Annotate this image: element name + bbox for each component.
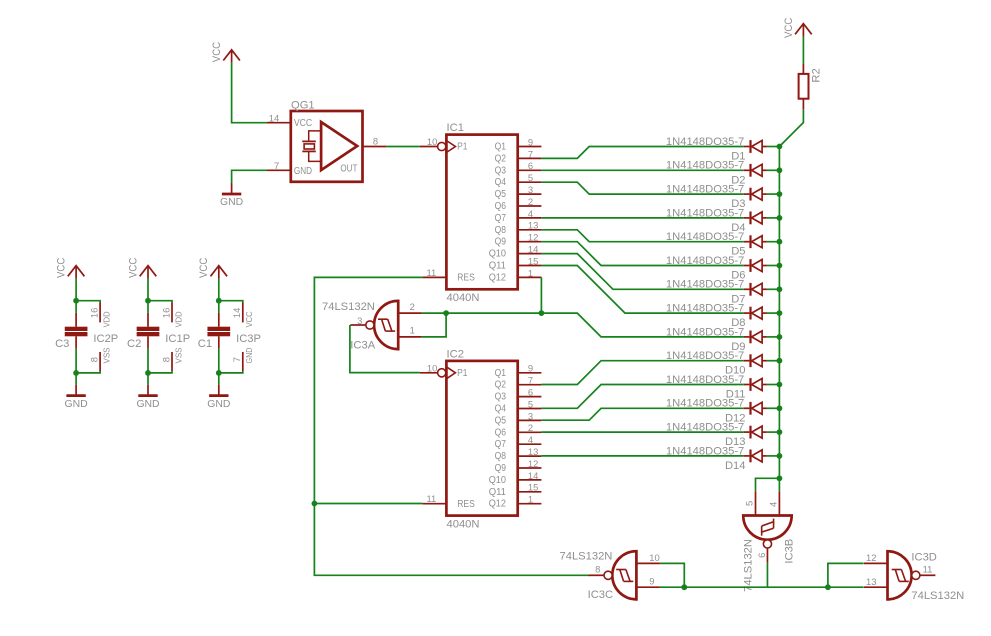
svg-text:13: 13 xyxy=(528,220,538,231)
wire VCC to C1 xyxy=(218,279,220,301)
svg-text:1N4148DO35-7: 1N4148DO35-7 xyxy=(666,350,744,362)
svg-text:6: 6 xyxy=(528,160,533,171)
svg-text:C3: C3 xyxy=(55,338,69,350)
junction IC3D inputs xyxy=(825,584,831,590)
svg-text:1N4148DO35-7: 1N4148DO35-7 xyxy=(666,445,744,457)
svg-text:10: 10 xyxy=(427,362,437,373)
diode D4 1N4148DO35-7 xyxy=(666,207,767,234)
wire diode OR bus xyxy=(778,147,780,492)
svg-text:VCC: VCC xyxy=(211,42,223,63)
svg-text:QG1: QG1 xyxy=(291,100,315,112)
svg-text:IC2P: IC2P xyxy=(93,333,118,345)
wire IC3D input loop xyxy=(828,563,864,587)
wire D3 to bus xyxy=(767,193,780,195)
wire IC2 Q2 to D10 xyxy=(541,361,743,385)
wire IC1 Q3 to D2 xyxy=(541,169,743,171)
svg-text:Q2: Q2 xyxy=(495,153,506,164)
svg-text:4040N: 4040N xyxy=(447,519,480,531)
resistor R2 xyxy=(799,64,823,110)
svg-text:5: 5 xyxy=(528,398,533,409)
junction C1 bottom xyxy=(216,370,222,376)
wire IC3A output to IC2 P1 xyxy=(350,325,420,373)
wire bus to IC3B pin 5 xyxy=(756,478,780,491)
IC2 4040N counter xyxy=(420,348,542,530)
diode D2 1N4148DO35-7 xyxy=(666,160,767,187)
svg-text:13: 13 xyxy=(866,576,876,587)
svg-text:Q11: Q11 xyxy=(489,261,506,272)
wire D14 to bus xyxy=(767,455,780,457)
wire IC1 Q4 to D3 xyxy=(541,182,743,194)
svg-text:8: 8 xyxy=(595,564,600,575)
svg-text:Q11: Q11 xyxy=(489,487,506,498)
wire IC3B output to gate rail xyxy=(766,563,768,588)
svg-text:1N4148DO35-7: 1N4148DO35-7 xyxy=(666,231,744,243)
svg-text:IC3D: IC3D xyxy=(911,551,937,563)
svg-text:10: 10 xyxy=(427,136,437,147)
wire D6 to bus xyxy=(767,265,780,267)
svg-text:GND: GND xyxy=(220,197,243,208)
svg-text:1N4148DO35-7: 1N4148DO35-7 xyxy=(666,326,744,338)
svg-text:GND: GND xyxy=(136,399,159,410)
wire gate rail IC3C to IC3D xyxy=(660,586,864,588)
svg-text:4: 4 xyxy=(767,502,778,507)
svg-text:Q3: Q3 xyxy=(495,165,507,176)
svg-text:1N4148DO35-7: 1N4148DO35-7 xyxy=(666,398,744,410)
wire IC1 Q8 to D5 xyxy=(541,230,743,242)
svg-text:GND: GND xyxy=(207,399,230,410)
svg-text:R2: R2 xyxy=(811,68,823,82)
svg-text:7: 7 xyxy=(528,375,533,386)
svg-text:1N4148DO35-7: 1N4148DO35-7 xyxy=(666,160,744,172)
wire VCC to QG1 pin 14 xyxy=(232,63,267,123)
junction bus to IC3B xyxy=(777,475,783,481)
svg-text:14: 14 xyxy=(528,470,538,481)
svg-text:9: 9 xyxy=(528,136,533,147)
wire D11 to bus xyxy=(767,384,780,386)
wire IC2 Q6 to D13 xyxy=(541,431,743,433)
svg-text:Q8: Q8 xyxy=(495,225,507,236)
wire VCC to C3 xyxy=(75,279,77,301)
wire D9 to bus xyxy=(767,336,780,338)
svg-text:VDD: VDD xyxy=(173,311,183,327)
svg-text:Q8: Q8 xyxy=(495,451,507,462)
junction bus node D2 xyxy=(777,167,783,173)
wire IC1 Q10 to D7 xyxy=(541,254,743,290)
power VCC symbol (C2) xyxy=(140,266,157,277)
junction C2 bottom xyxy=(145,370,151,376)
wire C2 top pin xyxy=(148,301,172,303)
power VCC symbol (C3) xyxy=(68,266,85,277)
svg-text:OUT: OUT xyxy=(340,164,357,175)
svg-text:Q6: Q6 xyxy=(495,427,507,438)
svg-text:1N4148DO35-7: 1N4148DO35-7 xyxy=(666,422,744,434)
diode D5 1N4148DO35-7 xyxy=(666,231,767,258)
svg-text:3: 3 xyxy=(528,410,533,421)
junction bus node D10 xyxy=(777,358,783,364)
power VCC symbol (C1) xyxy=(211,266,228,277)
capacitor C2 xyxy=(127,313,159,350)
wire D5 to bus xyxy=(767,241,780,243)
svg-text:1N4148DO35-7: 1N4148DO35-7 xyxy=(666,184,744,196)
svg-text:IC3B: IC3B xyxy=(783,539,795,564)
wire bus to R2 xyxy=(779,110,803,147)
svg-text:Q9: Q9 xyxy=(495,463,506,474)
svg-text:11: 11 xyxy=(426,493,436,504)
svg-text:C1: C1 xyxy=(198,338,212,350)
svg-text:1N4148DO35-7: 1N4148DO35-7 xyxy=(666,136,744,148)
svg-text:1: 1 xyxy=(528,267,533,278)
svg-text:RES: RES xyxy=(457,499,475,510)
svg-text:IC3C: IC3C xyxy=(588,589,614,601)
svg-text:8: 8 xyxy=(160,357,171,362)
svg-text:1N4148DO35-7: 1N4148DO35-7 xyxy=(666,255,744,267)
svg-text:5: 5 xyxy=(528,172,533,183)
wire C3 to GND xyxy=(75,349,77,373)
svg-text:7: 7 xyxy=(274,160,279,171)
junction bus node D12 xyxy=(777,405,783,411)
svg-text:11: 11 xyxy=(426,267,436,278)
junction IC3C inputs xyxy=(681,584,687,590)
junction bus node D1 xyxy=(777,144,783,150)
ground symbol (C2) xyxy=(147,385,149,396)
svg-text:RES: RES xyxy=(457,273,475,284)
diode D7 1N4148DO35-7 xyxy=(666,279,767,306)
wire D4 to bus xyxy=(767,217,780,219)
svg-text:C2: C2 xyxy=(127,338,141,350)
svg-text:74LS132N: 74LS132N xyxy=(911,590,964,602)
svg-text:VCC: VCC xyxy=(783,17,795,38)
svg-text:IC3A: IC3A xyxy=(350,339,375,351)
svg-text:Q5: Q5 xyxy=(495,415,507,426)
wire C2 to GND xyxy=(147,349,149,373)
svg-text:1N4148DO35-7: 1N4148DO35-7 xyxy=(666,207,744,219)
svg-text:VCC: VCC xyxy=(127,257,139,278)
junction bus node D11 xyxy=(777,382,783,388)
svg-text:Q10: Q10 xyxy=(489,249,507,260)
power part IC3P xyxy=(231,303,261,372)
junction bus node D5 xyxy=(777,239,783,245)
diode D6 1N4148DO35-7 xyxy=(666,255,767,282)
svg-text:16: 16 xyxy=(89,308,100,318)
ground symbol (C3) xyxy=(75,385,77,396)
svg-text:12: 12 xyxy=(528,232,538,243)
junction C3 top xyxy=(73,298,79,304)
wire IC1 Q9 to D6 xyxy=(541,242,743,266)
power VCC symbol (top right) xyxy=(795,24,812,35)
svg-text:Q4: Q4 xyxy=(495,404,507,415)
nand gate IC3D 74LS132N xyxy=(864,551,964,602)
oscillator QG1 xyxy=(267,100,386,182)
svg-text:11: 11 xyxy=(923,563,933,574)
wire IC1 Q12 / IC3A inputs to D9 xyxy=(541,277,743,337)
diode D13 1N4148DO35-7 xyxy=(666,422,767,449)
wire C1 bottom pin xyxy=(219,371,243,373)
svg-text:12: 12 xyxy=(866,552,876,563)
svg-text:2: 2 xyxy=(528,422,533,433)
svg-text:Q7: Q7 xyxy=(495,439,506,450)
diode D9 1N4148DO35-7 xyxy=(666,326,767,353)
svg-text:9: 9 xyxy=(528,363,533,374)
capacitor C1 xyxy=(198,313,230,350)
svg-text:VSS: VSS xyxy=(101,347,111,363)
svg-text:Q1: Q1 xyxy=(495,368,506,379)
svg-text:1N4148DO35-7: 1N4148DO35-7 xyxy=(666,279,744,291)
diode D3 1N4148DO35-7 xyxy=(666,184,767,211)
wire QG1 pin 8 to IC1 P1 xyxy=(386,146,419,148)
svg-text:7: 7 xyxy=(528,148,533,159)
wire C2 bottom pin xyxy=(148,371,172,373)
capacitor C3 xyxy=(55,313,87,350)
wire IC3C input loop xyxy=(660,563,684,587)
svg-text:P1: P1 xyxy=(457,142,467,153)
svg-text:GND: GND xyxy=(244,348,254,364)
svg-text:Q3: Q3 xyxy=(495,392,507,403)
svg-text:74LS132N: 74LS132N xyxy=(322,301,375,313)
svg-text:8: 8 xyxy=(89,357,100,362)
power VCC symbol (top left) xyxy=(223,50,240,61)
diode D10 1N4148DO35-7 xyxy=(666,350,767,377)
ground symbol (below QG1) xyxy=(231,183,233,194)
junction bus node D9 xyxy=(777,334,783,340)
wire IC1 Q7 to D4 xyxy=(541,217,743,219)
svg-text:6: 6 xyxy=(756,553,767,558)
junction C1 top xyxy=(216,298,222,304)
ground symbol (C1) xyxy=(218,385,220,396)
svg-text:VCC: VCC xyxy=(56,257,68,278)
svg-text:Q2: Q2 xyxy=(495,380,506,391)
junction reset at IC2 RES xyxy=(312,501,318,507)
svg-text:Q10: Q10 xyxy=(489,475,507,486)
svg-text:Q4: Q4 xyxy=(495,177,507,188)
wire reset net IC3C to IC1 RES and IC2 RES xyxy=(314,277,589,575)
svg-text:VCC: VCC xyxy=(198,257,210,278)
svg-text:7: 7 xyxy=(231,357,242,362)
wire IC1 Q2 to D1 xyxy=(541,147,743,159)
svg-text:4: 4 xyxy=(528,208,533,219)
nand gate IC3A 74LS132N xyxy=(322,301,422,352)
svg-text:Q12: Q12 xyxy=(489,272,506,283)
svg-text:8: 8 xyxy=(373,135,378,146)
svg-text:4: 4 xyxy=(528,434,533,445)
svg-text:2: 2 xyxy=(410,301,415,312)
svg-text:GND: GND xyxy=(294,166,312,177)
junction bus node D4 xyxy=(777,215,783,221)
svg-text:5: 5 xyxy=(743,501,754,506)
diode D12 1N4148DO35-7 xyxy=(666,398,767,425)
junction bus node D8 xyxy=(777,310,783,316)
wire IC2 Q4 to D11 xyxy=(541,385,743,409)
wire IC2 Q8 to D14 xyxy=(541,455,743,457)
wire R2 to VCC xyxy=(802,37,804,64)
svg-text:Q9: Q9 xyxy=(495,237,506,248)
svg-text:VSS: VSS xyxy=(173,347,183,363)
junction IC3A inputs xyxy=(443,310,449,316)
svg-text:VCC: VCC xyxy=(294,118,312,129)
svg-text:1N4148DO35-7: 1N4148DO35-7 xyxy=(666,303,744,315)
svg-text:16: 16 xyxy=(160,308,171,318)
svg-text:14: 14 xyxy=(269,112,279,123)
svg-text:Q1: Q1 xyxy=(495,142,506,153)
svg-text:6: 6 xyxy=(528,387,533,398)
svg-text:2: 2 xyxy=(528,196,533,207)
svg-text:IC1P: IC1P xyxy=(165,333,190,345)
svg-text:P1: P1 xyxy=(457,368,467,379)
diode D11 1N4148DO35-7 xyxy=(666,374,767,401)
svg-text:15: 15 xyxy=(528,482,538,493)
wire IC3A input loop xyxy=(422,313,446,337)
svg-text:4040N: 4040N xyxy=(447,292,480,304)
diode D1 1N4148DO35-7 xyxy=(666,136,767,163)
power part IC2P xyxy=(89,303,119,372)
svg-text:IC2: IC2 xyxy=(447,348,464,360)
svg-text:14: 14 xyxy=(528,244,538,255)
svg-text:VCC: VCC xyxy=(244,311,254,327)
svg-text:Q7: Q7 xyxy=(495,213,506,224)
junction C2 top xyxy=(145,298,151,304)
svg-text:13: 13 xyxy=(528,446,538,457)
junction Q12 node xyxy=(539,310,545,316)
nand gate IC3B 74LS132N xyxy=(743,492,796,592)
svg-text:1N4148DO35-7: 1N4148DO35-7 xyxy=(666,374,744,386)
junction bus node D3 xyxy=(777,191,783,197)
svg-text:1: 1 xyxy=(528,494,533,505)
wire D8 to bus xyxy=(767,312,780,314)
svg-text:74LS132N: 74LS132N xyxy=(743,539,755,592)
wire C1 top pin xyxy=(219,301,243,303)
svg-text:VDD: VDD xyxy=(101,311,111,327)
wire C1 to GND xyxy=(218,349,220,373)
junction bus node D13 xyxy=(777,429,783,435)
svg-text:3: 3 xyxy=(528,184,533,195)
wire D10 to bus xyxy=(767,360,780,362)
svg-text:Q5: Q5 xyxy=(495,189,507,200)
svg-text:14: 14 xyxy=(231,308,242,318)
wire QG1 pin 7 to GND xyxy=(232,170,267,183)
wire C3 bottom pin xyxy=(76,371,100,373)
svg-text:10: 10 xyxy=(649,552,659,563)
wire VCC to C2 xyxy=(147,279,149,301)
diode D14 1N4148DO35-7 xyxy=(666,445,767,472)
svg-text:IC1: IC1 xyxy=(447,122,464,134)
wire D1 to bus xyxy=(767,146,780,148)
power part IC1P xyxy=(160,303,190,372)
svg-text:12: 12 xyxy=(528,458,538,469)
junction bus node D7 xyxy=(777,286,783,292)
nand gate IC3C 74LS132N xyxy=(560,551,660,601)
svg-text:9: 9 xyxy=(649,576,654,587)
svg-text:D14: D14 xyxy=(725,460,746,472)
wire IC1 Q11 to D8 xyxy=(541,266,743,314)
wire IC2 Q5 to D12 xyxy=(541,408,743,420)
svg-text:Q12: Q12 xyxy=(489,499,506,510)
junction C3 bottom xyxy=(73,370,79,376)
svg-text:IC3P: IC3P xyxy=(236,333,261,345)
junction bus node D14 xyxy=(777,453,783,459)
wire D7 to bus xyxy=(767,288,780,290)
svg-text:15: 15 xyxy=(528,255,538,266)
junction bus node D6 xyxy=(777,263,783,269)
svg-text:Q6: Q6 xyxy=(495,201,507,212)
diode D8 1N4148DO35-7 xyxy=(666,303,767,330)
svg-text:74LS132N: 74LS132N xyxy=(560,551,613,563)
wire D12 to bus xyxy=(767,407,780,409)
svg-text:1: 1 xyxy=(410,325,415,336)
wire D2 to bus xyxy=(767,169,780,171)
wire C3 top pin xyxy=(76,301,100,303)
svg-text:GND: GND xyxy=(65,399,88,410)
wire D13 to bus xyxy=(767,431,780,433)
svg-text:3: 3 xyxy=(357,315,362,326)
IC1 4040N counter xyxy=(420,122,542,304)
